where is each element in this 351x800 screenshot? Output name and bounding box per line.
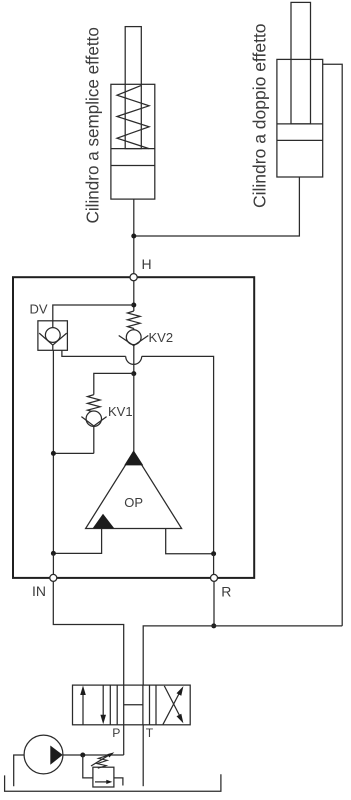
relief valve: spring	[97, 755, 108, 768]
cylinder double-acting: body	[277, 59, 323, 177]
wire: KV1 outlet to DV line	[53, 452, 93, 454]
svg-text:KV1: KV1	[108, 404, 133, 419]
svg-text:R: R	[221, 584, 231, 600]
svg-text:T: T	[146, 726, 154, 740]
node IN circle	[50, 574, 57, 581]
wire: bottom rail to valve port B	[143, 626, 342, 685]
hand pump OP: body triangle	[86, 452, 182, 528]
check valve KV2: seat	[119, 336, 149, 346]
enclosure box	[13, 277, 254, 578]
check valve KV1: stem	[93, 412, 95, 453]
wire: DA top port to right rail	[323, 64, 343, 626]
node H circle	[130, 274, 137, 281]
wire: branch to DV	[53, 305, 134, 321]
junction dot (pump / relief)	[80, 753, 85, 758]
junction dot (right leg)	[211, 551, 216, 556]
check valve KV1: spring	[88, 395, 101, 412]
wire: valve T down to tank	[142, 725, 144, 786]
cylinder single-acting: body	[111, 84, 155, 199]
junction dot (DV / KV1)	[51, 451, 56, 456]
wire hop over KV2 line	[126, 356, 142, 364]
valve 4/3: left position up arrow	[82, 692, 84, 725]
valve 4/3: left position down arrow	[102, 685, 104, 716]
cylinder double-acting: piston lines	[277, 124, 323, 140]
svg-text:OP: OP	[124, 495, 143, 510]
junction dot (R / rail)	[211, 623, 216, 628]
cylinder single-acting: piston lines	[111, 149, 155, 166]
relief valve: internal arrow	[95, 781, 109, 783]
check valve DV: internal stem	[52, 321, 54, 351]
wire: R to bottom rail	[213, 581, 215, 626]
junction dot	[131, 234, 136, 239]
cylinder double-acting: rod	[291, 2, 311, 124]
check valve KV1: ball	[86, 411, 101, 426]
relief valve: outlet wire	[114, 778, 123, 786]
cylinder single-acting: spring	[117, 86, 149, 149]
valve 4/3: outer body	[73, 685, 191, 725]
relief valve: inlet wire	[83, 755, 93, 778]
check valve KV1: seat	[81, 417, 106, 426]
pump: flow triangle	[50, 746, 62, 765]
svg-text:P: P	[112, 726, 120, 740]
wire: DV outlet down	[52, 350, 54, 553]
wire: IN to valve port A	[53, 581, 123, 685]
wire: left leg down to IN	[52, 553, 54, 574]
wire: valve P down to pump line	[123, 725, 125, 755]
wire: KV line down to OP	[133, 374, 135, 452]
svg-text:H: H	[142, 256, 152, 272]
svg-text:IN: IN	[32, 583, 46, 599]
hand pump OP: base flow arrow	[93, 514, 115, 529]
junction dot (KV2 top / DV branch)	[131, 303, 136, 308]
wire: H to KV2	[133, 281, 135, 311]
check valve KV2: stem	[133, 329, 135, 374]
svg-text:DV: DV	[30, 302, 48, 317]
pump: circle	[24, 735, 63, 774]
tank	[5, 774, 221, 791]
valve 4/3: right position cross arrows	[163, 686, 182, 725]
junction dot (left leg)	[51, 551, 56, 556]
wire: DV side stub to cross line	[62, 350, 126, 356]
wire: OP right leg	[166, 529, 214, 554]
wire: SA cylinder down to H	[133, 199, 135, 277]
check valve DV: seat	[39, 333, 66, 345]
wire: right branch down to R	[213, 554, 215, 574]
relief valve: adjust arrow	[91, 754, 111, 766]
svg-text:Cilindro a doppio effetto: Cilindro a doppio effetto	[250, 23, 270, 208]
wire: OP left leg	[53, 529, 101, 554]
valve 4/3: position dividers	[110, 685, 156, 725]
svg-text:KV2: KV2	[149, 330, 174, 345]
wire: branch to KV1	[94, 373, 134, 394]
svg-text:Cilindro a semplice effetto: Cilindro a semplice effetto	[84, 27, 103, 223]
wire: cross line to right branch	[142, 356, 214, 553]
wire: pump output to P	[63, 754, 124, 756]
junction dot (KV2 bottom / KV1 branch)	[131, 371, 136, 376]
node R circle	[211, 574, 218, 581]
valve 4/3: centre position pass lines	[124, 685, 143, 725]
check valve KV2: spring	[128, 311, 141, 329]
relief valve: body	[93, 767, 114, 787]
hand pump OP: top flow arrow	[124, 450, 143, 465]
cylinder single-acting: rod	[125, 27, 141, 149]
wire: junction to DA cylinder bottom port	[134, 177, 300, 236]
check valve KV2: ball	[126, 330, 141, 345]
check valve DV: ball	[45, 328, 60, 343]
check valve DV: box	[38, 321, 68, 351]
wire: pump suction	[14, 755, 24, 786]
